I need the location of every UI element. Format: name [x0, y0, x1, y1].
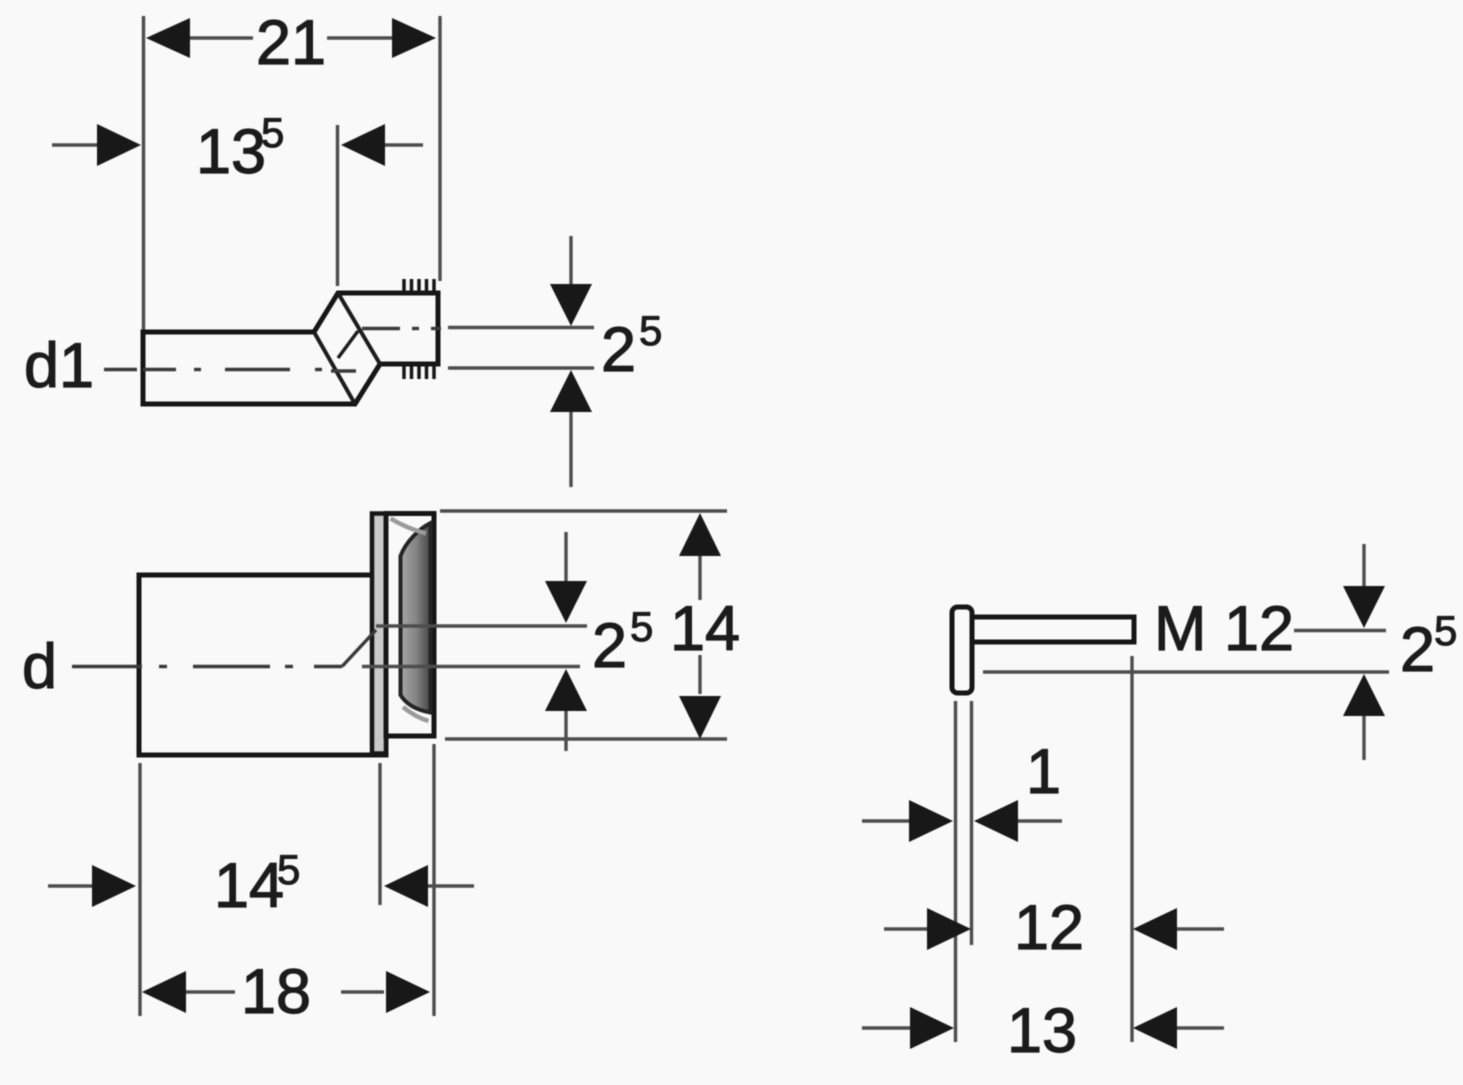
svg-text:2: 2: [601, 315, 636, 385]
dimension 2.5 offset (fig 2): [545, 532, 653, 751]
label M 12: [1154, 594, 1294, 664]
dimension 21: [146, 8, 436, 78]
svg-text:2: 2: [1400, 615, 1435, 685]
label d1: [24, 331, 94, 401]
bolt head: [952, 607, 972, 693]
bottom reference line (dim 14): [445, 737, 727, 740]
dimension 2.5 (fig 3): [1343, 544, 1457, 760]
stub line at M12 level: [1294, 629, 1386, 632]
top reference line (dim 14): [440, 509, 727, 512]
joint line 2 (upper mitre): [338, 293, 380, 364]
extension line left (dim 21): [142, 16, 145, 330]
socket body: [386, 514, 434, 737]
lower reference line (bolt axis offset): [983, 670, 1389, 673]
flange plate: [372, 514, 386, 754]
elbow body outline: [143, 293, 438, 404]
label d: [22, 632, 57, 702]
svg-text:12: 12: [1014, 893, 1084, 963]
extension line (dim 13.5): [336, 125, 339, 286]
dimension 14.5: [48, 846, 474, 921]
cone band inside socket: [401, 523, 431, 713]
tube body: [139, 575, 386, 755]
svg-text:5: 5: [277, 846, 300, 893]
svg-text:18: 18: [241, 957, 311, 1027]
svg-text:5: 5: [639, 307, 662, 354]
centerline d1 axis: [104, 370, 356, 372]
dimension 13: [862, 996, 1224, 1066]
centerline d axis: [72, 665, 342, 668]
svg-text:2: 2: [592, 611, 627, 681]
svg-text:14: 14: [214, 851, 284, 921]
extension line right (dim 21): [438, 16, 441, 281]
svg-text:1: 1: [1026, 737, 1061, 807]
extension line right (dim 18): [432, 744, 435, 1016]
axis kink diagonal: [342, 630, 376, 667]
svg-text:5: 5: [630, 603, 653, 650]
svg-text:13: 13: [1007, 996, 1077, 1066]
extension line head left: [954, 701, 957, 1042]
svg-text:14: 14: [670, 594, 740, 664]
thread marks top: [404, 279, 434, 292]
cone back edge bottom: [403, 707, 429, 721]
svg-text:M 12: M 12: [1154, 594, 1294, 664]
joint line 1 (lower mitre): [314, 332, 355, 404]
svg-text:d: d: [22, 632, 57, 702]
centerline upper axis: [362, 327, 441, 330]
dimension 14 height: [670, 513, 740, 739]
dimension 18: [142, 957, 430, 1027]
extension line left (fig 2 bottom dims): [138, 763, 141, 1016]
lower axis solid line: [362, 665, 580, 668]
reference line upper axis extension: [448, 326, 594, 329]
dimension 12: [884, 893, 1224, 963]
extension line mid (dim 14.5): [378, 763, 381, 905]
svg-text:21: 21: [256, 8, 326, 78]
svg-text:13: 13: [196, 117, 266, 187]
dimension 13.5: [52, 109, 423, 187]
upper axis line (offset axis): [376, 624, 587, 627]
svg-text:5: 5: [261, 109, 284, 156]
dimension 1: [862, 737, 1062, 842]
crease line in bend: [338, 331, 358, 358]
reference line lower axis extension: [448, 366, 594, 369]
bolt shaft: [972, 617, 1134, 642]
extension line head right: [970, 701, 973, 945]
band highlight arc: [391, 519, 427, 534]
extension line shaft end: [1130, 656, 1133, 1042]
svg-text:d1: d1: [24, 331, 94, 401]
dimension 2.5 offset (fig 1): [550, 236, 662, 487]
svg-text:5: 5: [1434, 607, 1457, 654]
thread marks bottom: [404, 366, 434, 379]
